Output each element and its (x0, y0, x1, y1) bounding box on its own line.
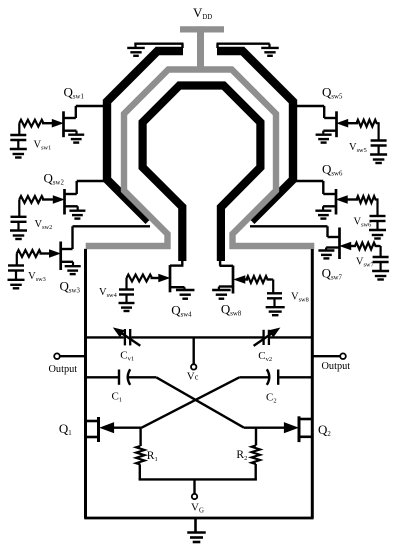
node Output right terminal (340, 353, 346, 359)
node VG terminal (192, 494, 197, 499)
capacitor at Vsw8 (267, 293, 282, 307)
label C2 (266, 392, 277, 405)
wire Qsw1 gate arrow (42, 120, 62, 127)
wire tap Qsw6 to outer turn (293, 180, 323, 182)
wire cross C2 to Q1 gate (142, 377, 240, 427)
wire Vsw8 to resistor (272, 280, 274, 294)
wire tap Qsw5 to outer turn (293, 105, 324, 107)
wire outer turn left end to ground (134, 44, 183, 48)
label Output right (322, 361, 351, 372)
wire Q1 gate (101, 423, 142, 433)
wire Vsw7 to resistor (380, 246, 382, 257)
label Qsw5 (322, 85, 343, 101)
capacitor at Vsw2 (11, 217, 27, 231)
label Vsw4 (99, 287, 118, 299)
resistor at Qsw4 gate (127, 275, 153, 282)
label Q1 (59, 421, 72, 437)
wire Vsw4 to resistor (125, 278, 127, 290)
label R2 (236, 449, 247, 462)
wire Qsw6 gate arrow (337, 196, 358, 203)
label Qsw4 (171, 303, 192, 319)
resistor at Qsw2 gate (19, 196, 43, 203)
label Vsw2 (35, 219, 53, 231)
transistor Qsw8 (219, 266, 233, 294)
ground at Qsw8 source (212, 290, 231, 299)
transistor Qsw2 (65, 181, 78, 215)
wire Vc stem (192, 338, 194, 364)
wire Q2 gate to R2 (255, 428, 257, 446)
wire Qsw2 gate arrow (42, 196, 63, 203)
ground at Qsw3 source (65, 266, 81, 274)
varactor Cv1 (113, 327, 141, 345)
wire tap Qsw7 to outer turn end (250, 225, 328, 227)
ground at Vsw8 (266, 307, 285, 315)
ground at Qsw1 source (68, 135, 84, 143)
wire Vsw6 to resistor (376, 200, 378, 217)
label Qsw3 (60, 279, 81, 295)
wire Q1 gate to R1 (139, 428, 141, 446)
power VDD label (193, 5, 212, 21)
wire R1 to VG bus (139, 465, 141, 480)
resistor at Qsw8 gate (246, 276, 271, 283)
label Qsw2 (44, 171, 65, 187)
label Vsw8 (291, 292, 309, 304)
resistor R2 (252, 446, 260, 465)
wire VG bus (139, 478, 257, 480)
label VG (191, 502, 204, 515)
capacitor C2 (267, 369, 278, 385)
wire C1 to cross (128, 376, 156, 378)
varactor Cv2 (254, 328, 281, 346)
wire Vsw1 to resistor (18, 123, 20, 135)
label Qsw8 (221, 302, 242, 318)
ground at Vsw5 (370, 155, 387, 164)
capacitor at Vsw4 (119, 290, 134, 304)
label Output left (49, 364, 78, 375)
ground at Vsw2 (10, 231, 27, 240)
wire left rail to C1 (86, 376, 119, 378)
svg-text:Vc: Vc (187, 371, 199, 383)
ground at Qsw6 source (315, 211, 331, 219)
label Vsw3 (28, 271, 46, 283)
resistor at Qsw5 gate (357, 120, 380, 127)
wire Qsw3 gate arrow (40, 250, 60, 257)
ground at Vsw3 (8, 280, 25, 289)
wire Q2 gate (244, 423, 297, 433)
wire Vsw3 to resistor (16, 254, 18, 266)
ground at outer turn left end (127, 44, 145, 56)
label Qsw1 (64, 85, 84, 101)
ground at Vsw1 (10, 149, 27, 158)
wire cross C1 to Q2 gate (156, 377, 244, 427)
label Qsw7 (322, 266, 343, 282)
node Vc terminal (191, 364, 196, 369)
resistor at Qsw3 gate (17, 250, 41, 257)
capacitor at Vsw3 (8, 266, 24, 280)
label Q2 (318, 422, 331, 438)
capacitor at Vsw5 (371, 141, 387, 155)
wire VG stem (193, 479, 195, 493)
capacitor at Vsw1 (10, 135, 26, 149)
wire C2 to right rail (279, 376, 312, 378)
wire tank left rail (84, 249, 87, 518)
wire VDD feed T-bar (180, 26, 224, 32)
transistor Q1 (86, 417, 99, 442)
ground at Qsw4 source (176, 290, 195, 299)
label Qsw6 (322, 162, 343, 178)
capacitor C1 (119, 369, 130, 385)
resistor R1 (136, 446, 144, 465)
node Output left terminal (54, 353, 60, 359)
label Cv1 (120, 350, 134, 363)
wire R2 to VG bus (254, 464, 256, 479)
ground at Qsw7 source (318, 251, 334, 259)
capacitor at Vsw6 (370, 216, 386, 230)
transistor Qsw4 (170, 265, 185, 292)
svg-text:Output: Output (322, 361, 351, 372)
svg-text:Output: Output (49, 364, 78, 375)
ground at Vsw4 (119, 303, 135, 311)
ground at Qsw5 source (316, 135, 332, 143)
ground at Vsw7 (372, 271, 389, 280)
wire outer turn right end to ground (217, 44, 270, 48)
ground at outer turn right end (261, 44, 279, 56)
label R1 (147, 450, 158, 463)
transistor Qsw6 (323, 181, 336, 215)
inductor middle turn (center-tapped) (86, 70, 315, 247)
inductor outer turn right half (217, 51, 293, 221)
wire Vsw5 to resistor (378, 123, 380, 140)
transistor Qsw3 (61, 226, 73, 270)
resistor at Qsw6 gate (357, 196, 379, 203)
wire tap Qsw2 to outer turn (77, 180, 107, 182)
resistor at Qsw1 gate (19, 120, 43, 127)
label Vsw1 (34, 140, 52, 152)
wire Output left (60, 355, 86, 357)
label Vc (187, 371, 199, 383)
wire Output right (312, 355, 340, 357)
inductor inner turn (143, 86, 261, 262)
ground at Qsw2 source (69, 211, 85, 219)
wire tap Qsw1 to outer turn (76, 105, 107, 107)
label Vsw7 (356, 257, 374, 269)
transistor Q2 (299, 416, 312, 442)
wire inner turn end to Qsw4 drain (170, 259, 183, 266)
transistor Qsw1 (64, 106, 77, 137)
transistor Qsw7 (326, 226, 339, 259)
ground at Vsw6 (369, 230, 386, 239)
wire Qsw8 gate arrow (235, 276, 273, 283)
wire varactor row (86, 336, 313, 338)
wire VDD feed stem (197, 26, 204, 72)
wire tap Qsw3 to outer turn end (73, 225, 151, 227)
wire C2 to cross (239, 376, 268, 378)
label Vsw5 (349, 142, 367, 154)
wire bottom rail (84, 517, 313, 520)
resistor at Qsw7 gate (355, 243, 379, 250)
label C1 (112, 391, 123, 404)
inductor outer turn left half (107, 51, 183, 221)
wire Qsw4 gate arrow (151, 274, 169, 281)
transistor Qsw5 (323, 106, 336, 137)
label Vsw6 (354, 217, 372, 229)
wire inner turn end to Qsw8 drain (220, 259, 234, 266)
label Cv2 (258, 350, 272, 363)
capacitor at Vsw7 (373, 257, 389, 271)
wire Qsw7 gate arrow (341, 242, 381, 249)
wire Qsw5 gate arrow (338, 120, 358, 127)
wire tank right rail (311, 249, 314, 518)
ground at bottom rail (187, 518, 206, 542)
wire Vsw2 to resistor (18, 200, 20, 217)
